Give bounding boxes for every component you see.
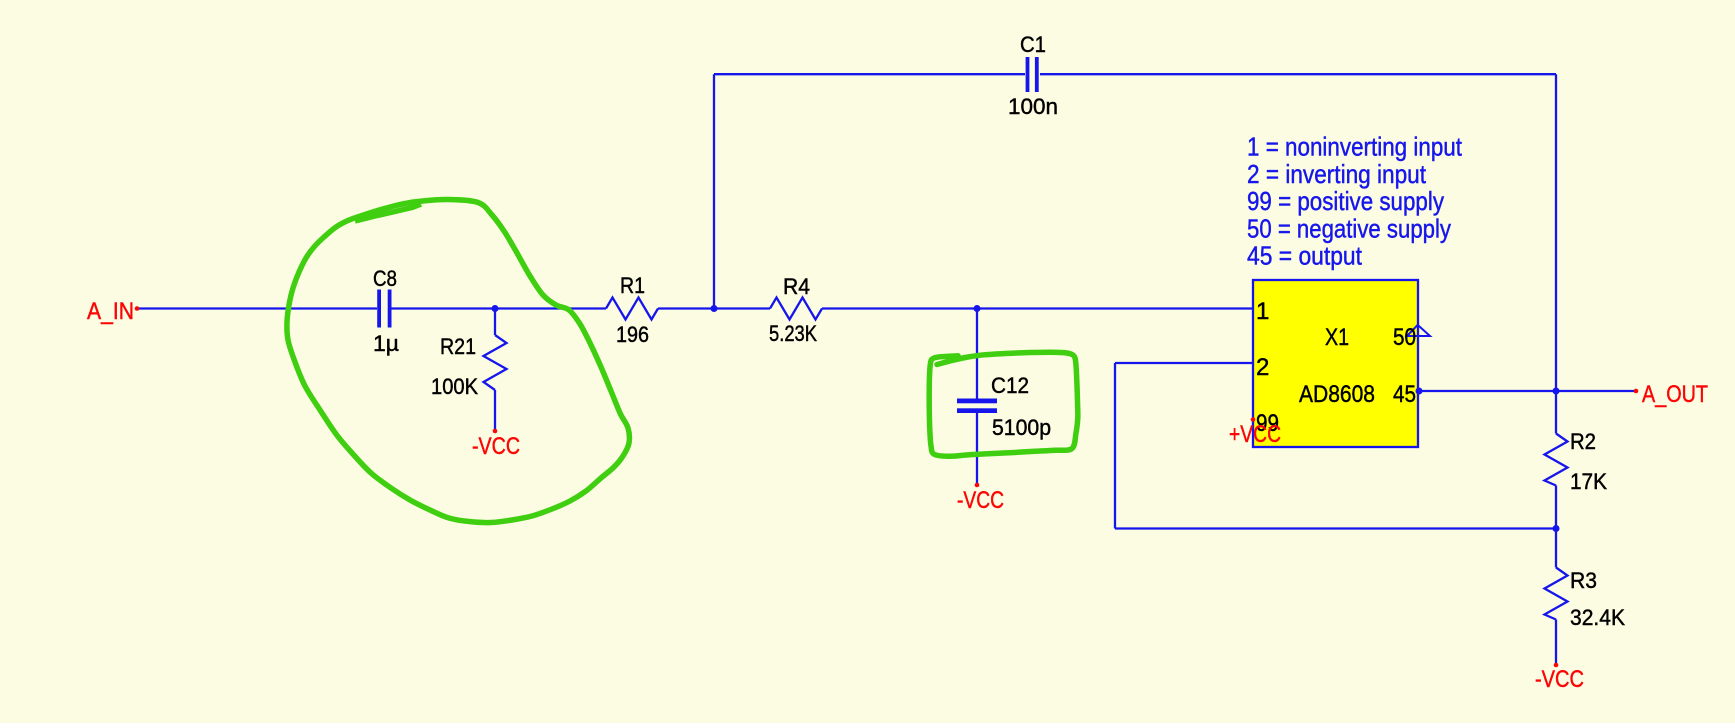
svg-text:100n: 100n xyxy=(1008,94,1058,119)
svg-text:A_OUT: A_OUT xyxy=(1642,381,1708,408)
svg-text:45 = output: 45 = output xyxy=(1247,241,1363,271)
resistor R4 xyxy=(770,298,822,320)
svg-text:2: 2 xyxy=(1256,354,1269,381)
terminal -VCC R3 xyxy=(1554,663,1559,668)
svg-text:C12: C12 xyxy=(991,373,1029,398)
wire R3 to -VCC xyxy=(1555,620,1557,666)
junction R2/R3/pin2 loop xyxy=(1553,525,1560,532)
terminal -VCC R21 xyxy=(493,429,498,434)
resistor R1 xyxy=(606,298,658,320)
svg-text:C1: C1 xyxy=(1020,32,1046,57)
capacitor C1 plates xyxy=(1026,57,1039,92)
green annotation C12 box xyxy=(929,352,1078,456)
junction C12 branch xyxy=(974,305,981,312)
wire C1 to right corner xyxy=(1040,73,1556,75)
terminal A_IN xyxy=(135,306,140,311)
green tail stroke xyxy=(355,204,421,221)
wire feedback vertical left xyxy=(713,74,715,308)
resistor R2 xyxy=(1545,434,1568,486)
svg-text:1µ: 1µ xyxy=(373,331,399,356)
svg-text:50 = negative supply: 50 = negative supply xyxy=(1247,213,1451,243)
svg-text:2 = inverting input: 2 = inverting input xyxy=(1247,159,1427,189)
svg-text:R4: R4 xyxy=(783,274,810,299)
wire pin2 loop vertical xyxy=(1114,363,1116,529)
wire C8 to R1 xyxy=(392,307,607,309)
svg-text:196: 196 xyxy=(616,322,649,347)
wire R21 branch top xyxy=(494,309,496,336)
terminal -VCC C12 xyxy=(975,483,980,488)
wire pin2 left xyxy=(1115,362,1253,364)
svg-text:-VCC: -VCC xyxy=(957,487,1004,514)
svg-text:-VCC: -VCC xyxy=(1535,666,1584,693)
svg-text:32.4K: 32.4K xyxy=(1570,605,1625,630)
wire R21 to -VCC xyxy=(494,390,496,431)
svg-text:5100p: 5100p xyxy=(992,415,1051,440)
op-amp U-X1 box xyxy=(1253,280,1418,447)
svg-text:R2: R2 xyxy=(1570,429,1596,454)
svg-text:+VCC: +VCC xyxy=(1229,421,1281,448)
wire right vertical down to R2 xyxy=(1555,74,1557,433)
svg-text:AD8608: AD8608 xyxy=(1299,381,1375,408)
black component labels xyxy=(373,32,1625,630)
svg-text:5.23K: 5.23K xyxy=(769,321,817,346)
capacitor C12 plates xyxy=(957,399,997,414)
terminal +VCC pin99 xyxy=(1251,417,1256,422)
svg-text:R1: R1 xyxy=(620,273,645,298)
pin 50 flag xyxy=(1407,325,1430,336)
capacitor C8 plates xyxy=(377,290,391,328)
junction feedback branch xyxy=(711,305,718,312)
wire R1 to R4 xyxy=(658,307,770,309)
svg-text:1: 1 xyxy=(1256,298,1269,325)
svg-text:X1: X1 xyxy=(1325,324,1349,351)
junction pin 45 xyxy=(1416,388,1423,395)
blue legend text xyxy=(1247,132,1463,271)
wire pin2 loop bottom xyxy=(1115,527,1556,529)
wire C12 to -VCC xyxy=(976,413,978,485)
svg-text:50: 50 xyxy=(1393,324,1416,351)
resistor R3 xyxy=(1545,568,1568,620)
IC labels black xyxy=(1256,298,1416,437)
svg-text:99 = positive supply: 99 = positive supply xyxy=(1247,186,1444,216)
wire output pin45 to A_OUT xyxy=(1418,390,1636,392)
junction R21 branch xyxy=(492,305,499,312)
green annotation big loop xyxy=(287,199,630,522)
svg-text:45: 45 xyxy=(1393,381,1416,408)
svg-text:A_IN: A_IN xyxy=(87,298,134,325)
wire R2 to junction xyxy=(1555,486,1557,568)
wire top to C1 xyxy=(714,73,1025,75)
junction output/feedback xyxy=(1553,388,1560,395)
svg-text:1 = noninverting input: 1 = noninverting input xyxy=(1247,132,1463,162)
terminal A_OUT xyxy=(1634,389,1639,394)
svg-text:100K: 100K xyxy=(431,374,478,399)
svg-text:17K: 17K xyxy=(1570,469,1607,494)
svg-text:C8: C8 xyxy=(373,266,397,291)
svg-text:R3: R3 xyxy=(1570,568,1597,593)
wire main A_IN to C8 xyxy=(137,307,377,309)
wire C12 branch top xyxy=(976,309,978,399)
red net labels xyxy=(87,298,1708,693)
svg-text:R21: R21 xyxy=(440,334,476,359)
wire R4 to pin1 xyxy=(822,307,1254,309)
resistor R21 xyxy=(484,335,507,390)
svg-text:-VCC: -VCC xyxy=(472,433,520,460)
